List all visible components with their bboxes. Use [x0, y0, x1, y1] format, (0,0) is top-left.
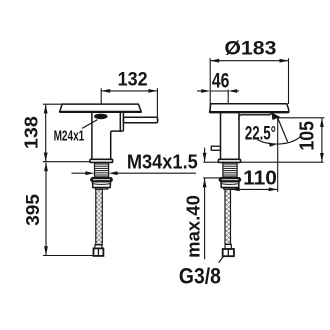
svg-text:46: 46: [212, 68, 230, 92]
svg-text:138: 138: [22, 116, 42, 149]
svg-text:M34x1.5: M34x1.5: [127, 151, 198, 174]
svg-text:max.40: max.40: [183, 195, 204, 258]
svg-text:395: 395: [22, 194, 43, 226]
svg-text:M24x1: M24x1: [54, 126, 85, 144]
svg-text:22.5°: 22.5°: [245, 122, 276, 144]
svg-text:Ø183: Ø183: [224, 38, 276, 59]
svg-text:132: 132: [118, 68, 148, 90]
svg-text:105: 105: [297, 121, 319, 151]
svg-text:110: 110: [243, 167, 277, 189]
svg-text:G3/8: G3/8: [179, 264, 221, 288]
